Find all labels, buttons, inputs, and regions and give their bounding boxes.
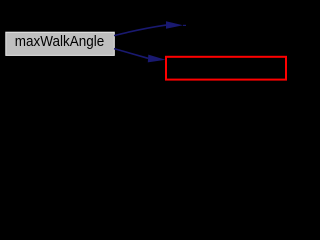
node maxWalkAngle: [6, 32, 115, 55]
svg-text:maxWalkAngle: maxWalkAngle: [15, 33, 104, 50]
node truncated red: [166, 57, 286, 80]
arrowhead 1: [166, 21, 183, 29]
wire edge to truncated node: [114, 49, 148, 59]
arrowhead 2: [148, 55, 166, 63]
wire edge to hidden node: [114, 25, 166, 35]
wire nub at hidden node: [183, 24, 186, 26]
